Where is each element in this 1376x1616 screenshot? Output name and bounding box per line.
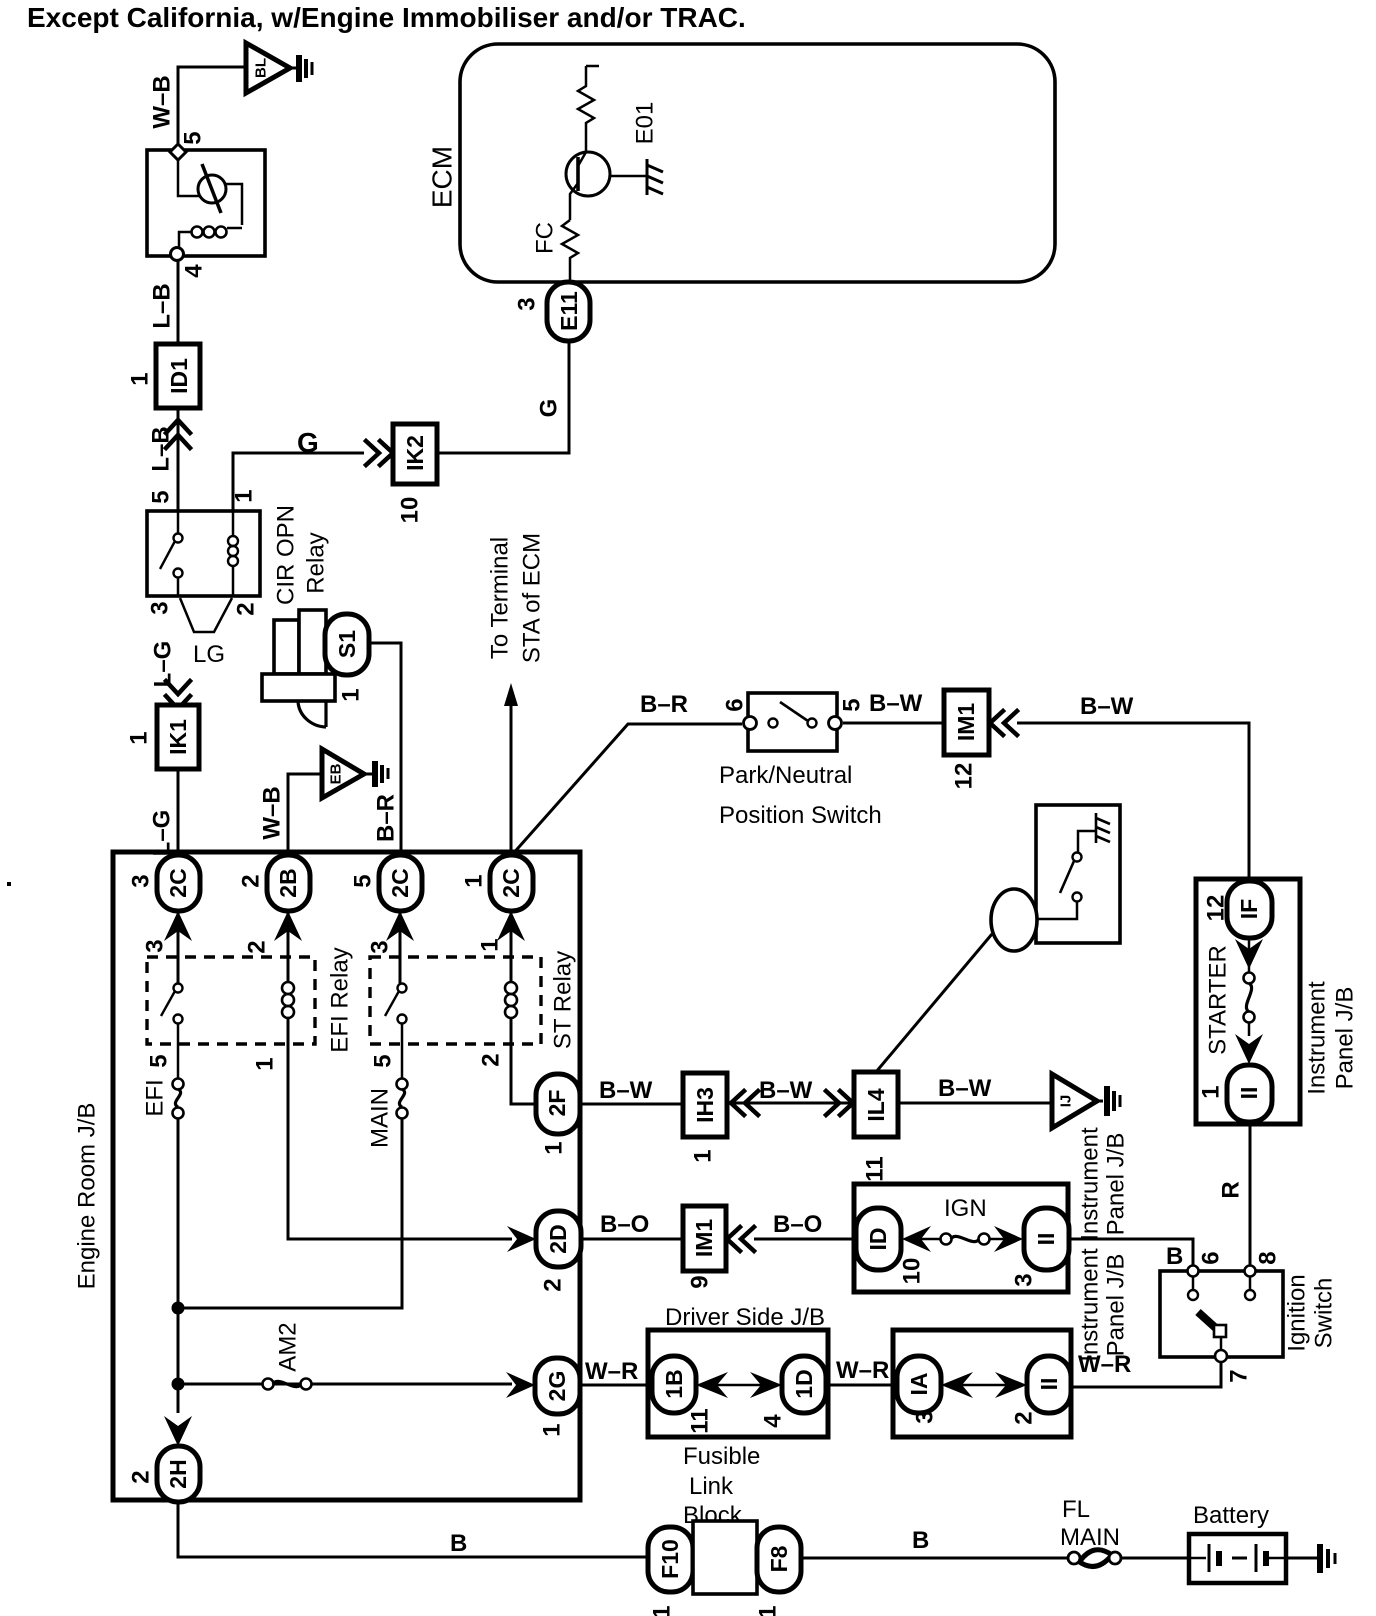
wire EFI fuse down: [177, 1118, 180, 1413]
svg-text:5: 5: [839, 698, 866, 711]
fuse EFI: [173, 1079, 184, 1090]
svg-text:W–B: W–B: [259, 786, 286, 839]
svg-text:Fusible: Fusible: [683, 1443, 760, 1470]
svg-text:2: 2: [1011, 1411, 1038, 1424]
wire 2C5 to ST switch: [399, 911, 402, 984]
svg-text:LG: LG: [193, 641, 225, 668]
svg-text:L–G: L–G: [149, 810, 176, 857]
pictorial switch contacts: [1073, 853, 1082, 862]
wire MAIN fuse down to junction: [178, 1118, 402, 1308]
svg-text:L–G: L–G: [150, 641, 177, 688]
svg-text:L–B: L–B: [149, 283, 176, 328]
svg-text:3: 3: [128, 874, 155, 887]
junction arrow right toward 1D: [750, 1372, 782, 1398]
svg-text:1: 1: [252, 1057, 279, 1070]
svg-text:L–B: L–B: [148, 426, 175, 471]
CIR OPN coil wires: [232, 511, 235, 596]
wire AM2: [178, 1383, 512, 1386]
wire-join chevrons left into IM1: [990, 711, 1017, 735]
relay internal wire: [178, 160, 199, 196]
EFI Relay dashed box: [147, 957, 315, 1044]
svg-text:ECM: ECM: [427, 146, 458, 208]
svg-text:IH3: IH3: [692, 1087, 718, 1123]
svg-text:2C: 2C: [498, 868, 524, 897]
svg-text:2C: 2C: [165, 868, 191, 897]
ground (battery) bars: [1317, 1544, 1323, 1573]
ST Relay dashed box: [370, 957, 541, 1044]
svg-text:W–R: W–R: [836, 1357, 889, 1384]
ground EB bars: [364, 773, 372, 776]
connector 1D: [782, 1356, 826, 1413]
connector 2H: [157, 1446, 200, 1502]
svg-text:Instrument: Instrument: [1077, 1127, 1104, 1241]
CIR OPN switch wires: [177, 511, 180, 596]
wire EFI coil to 2D: [288, 1018, 512, 1239]
fuse MAIN: [397, 1079, 408, 1090]
svg-text:2: 2: [233, 602, 260, 615]
wire G from coil pin 1: [233, 453, 364, 511]
connector IF: [1227, 881, 1272, 938]
ignition switch pictorial box: [1036, 805, 1120, 943]
svg-text:3: 3: [912, 1410, 939, 1423]
ground E01 (777): [647, 159, 663, 195]
ignition switch terminal 6: [1188, 1266, 1199, 1277]
wire W-B to ground BL: [178, 67, 246, 150]
svg-text:CIR OPN: CIR OPN: [273, 505, 300, 605]
junction arrow right toward II: [995, 1372, 1027, 1398]
svg-text:5: 5: [370, 1054, 397, 1067]
junction arrow left toward IA: [941, 1372, 973, 1398]
svg-text:3: 3: [1011, 1273, 1038, 1286]
junction arrow up into 2B(2): [274, 911, 302, 941]
svg-text:B–W: B–W: [938, 1075, 992, 1102]
svg-text:G: G: [297, 427, 319, 458]
wire ST coil to 2F: [511, 1018, 537, 1104]
connector IM1 pin 9: [683, 1206, 726, 1271]
relay (pictorial, top-left) box: [147, 150, 265, 256]
svg-text:2: 2: [540, 1278, 567, 1291]
wire B-W long from instrument panel: [1017, 723, 1249, 881]
wire-join chevrons right: [366, 441, 393, 465]
resistor (pull-up in ECM): [578, 66, 599, 152]
svg-text:1B: 1B: [661, 1369, 687, 1398]
EFI relay coil: [282, 982, 294, 994]
battery cells: [1189, 1557, 1206, 1560]
ECM box: [460, 44, 1055, 282]
svg-text:B–W: B–W: [599, 1077, 653, 1104]
PNP switch terminal diamonds: [744, 717, 757, 730]
svg-text:B–R: B–R: [373, 794, 400, 842]
svg-text:3: 3: [147, 601, 174, 614]
svg-text:Instrument: Instrument: [1077, 1248, 1104, 1362]
junction arrow down into 2H: [164, 1416, 192, 1446]
svg-text:1: 1: [461, 874, 488, 887]
fusible link block square: [693, 1521, 757, 1594]
svg-text:12: 12: [1203, 895, 1230, 922]
connector IA: [897, 1356, 941, 1413]
wire battery to ground: [1286, 1557, 1317, 1560]
connector 2G: [535, 1358, 580, 1414]
connector 1B: [652, 1356, 696, 1413]
svg-text:STA of ECM: STA of ECM: [519, 533, 546, 663]
connector IL4: [854, 1072, 898, 1137]
svg-text:Switch: Switch: [1311, 1278, 1338, 1349]
svg-text:9: 9: [687, 1275, 714, 1288]
connector 2D: [536, 1211, 581, 1267]
junction dot MAIN line: [172, 1302, 185, 1315]
svg-text:B–O: B–O: [600, 1211, 649, 1238]
svg-text:5: 5: [350, 874, 377, 887]
svg-text:Panel J/B: Panel J/B: [1103, 1254, 1130, 1357]
svg-text:2C: 2C: [387, 868, 413, 897]
svg-text:MAIN: MAIN: [1060, 1524, 1120, 1551]
svg-text:2D: 2D: [545, 1224, 571, 1253]
connector II instrument: [1027, 1356, 1071, 1413]
fuse STARTER: [1248, 938, 1251, 973]
svg-text:IJ: IJ: [1058, 1095, 1075, 1108]
fuse AM2: [263, 1379, 274, 1390]
ignition switch key lever: [1198, 1312, 1219, 1331]
svg-text:Ignition: Ignition: [1284, 1274, 1311, 1351]
svg-text:IF: IF: [1236, 899, 1262, 919]
wire-join chevrons right: [826, 1091, 853, 1115]
svg-text:MAIN: MAIN: [367, 1088, 394, 1148]
connector E11: [547, 282, 590, 341]
park/neutral position switch box: [748, 693, 837, 751]
fusible link FL MAIN: [1068, 1552, 1080, 1564]
CIR OPN switch upper contact: [174, 534, 183, 543]
wire B-O to IGN: [754, 1238, 857, 1241]
instrument panel connector box: [893, 1330, 1071, 1437]
svg-text:IA: IA: [906, 1373, 932, 1396]
svg-text:1: 1: [1198, 1085, 1225, 1098]
svg-text:2H: 2H: [165, 1459, 191, 1488]
wire W-R between J/Bs: [828, 1384, 893, 1387]
connector IM1 pin 12: [944, 690, 989, 755]
svg-text:4: 4: [181, 264, 208, 278]
wire B-R diagonal to Park/Neutral: [511, 724, 742, 856]
svg-text:Link: Link: [689, 1473, 734, 1500]
PNP switch lever: [780, 702, 808, 721]
connector F8: [757, 1527, 801, 1592]
junction arrow up into 2C(3): [164, 911, 192, 941]
svg-text:IK1: IK1: [165, 719, 191, 755]
svg-text:FC: FC: [532, 222, 559, 254]
svg-text:S1: S1: [334, 630, 360, 658]
svg-text:2: 2: [478, 1053, 505, 1066]
svg-text:1: 1: [541, 1141, 568, 1154]
Driver Side J/B box: [648, 1330, 828, 1437]
junction arrow down from IF: [1235, 939, 1263, 969]
wire between IA II arrows: [960, 1384, 1008, 1387]
svg-text:2G: 2G: [544, 1371, 570, 1402]
svg-text:BL: BL: [253, 58, 270, 78]
svg-text:B: B: [450, 1530, 467, 1557]
wire-join chevrons down: [166, 681, 190, 709]
junction arrow right into 2G: [506, 1372, 535, 1398]
CIR OPN switch lever: [160, 541, 175, 569]
junction arrow right into 2D: [507, 1226, 536, 1252]
relay armature circle: [198, 175, 226, 203]
svg-text:B: B: [1166, 1243, 1183, 1270]
svg-text:Position Switch: Position Switch: [719, 802, 882, 829]
ignition key cylinder oval: [991, 889, 1037, 951]
wire W-B to ground EB: [288, 774, 322, 856]
svg-text:1: 1: [755, 1605, 782, 1616]
svg-text:Engine Room J/B: Engine Room J/B: [74, 1103, 101, 1290]
wire 2B2 to EFI coil: [287, 911, 290, 982]
wire from II to ignition switch B/6: [1069, 1239, 1193, 1267]
svg-text:B–W: B–W: [869, 690, 923, 717]
svg-text:Driver Side J/B: Driver Side J/B: [665, 1304, 825, 1331]
svg-text:EFI Relay: EFI Relay: [327, 947, 354, 1052]
connector II of IGN: [1024, 1208, 1069, 1270]
svg-text:1: 1: [338, 688, 365, 701]
junction arrow down into II: [1235, 1034, 1263, 1064]
transistor wire to ground E01: [610, 175, 647, 178]
svg-text:B: B: [912, 1527, 929, 1554]
svg-text:ST Relay: ST Relay: [550, 951, 577, 1049]
svg-text:F10: F10: [657, 1539, 683, 1579]
svg-text:W–B: W–B: [149, 75, 176, 128]
svg-text:4: 4: [760, 1414, 787, 1428]
svg-text:Relay: Relay: [303, 532, 330, 593]
svg-text:IK2: IK2: [402, 435, 428, 471]
wire B-W PNP to IM1: [843, 722, 944, 725]
connector 2C pin 5: [379, 855, 422, 911]
svg-text:IM1: IM1: [691, 1219, 717, 1258]
svg-text:B–O: B–O: [773, 1211, 822, 1238]
relay S1 bracket arc: [298, 701, 326, 727]
svg-text:Instrument: Instrument: [1304, 981, 1331, 1095]
ground BL triangle: [246, 43, 290, 93]
svg-text:FL: FL: [1062, 1496, 1090, 1523]
svg-text:1: 1: [126, 731, 153, 744]
wire between chevrons: [727, 1102, 854, 1105]
svg-text:E01: E01: [632, 102, 659, 145]
svg-text:12: 12: [951, 763, 978, 790]
svg-text:Park/Neutral: Park/Neutral: [719, 762, 852, 789]
wire-join chevrons left into IM1: [727, 1227, 754, 1251]
svg-text:1: 1: [690, 1149, 717, 1162]
connector 2C pin 3: [157, 855, 200, 911]
svg-text:10: 10: [397, 497, 424, 524]
svg-text:6: 6: [1198, 1251, 1225, 1264]
relay internal wire to coil: [226, 184, 242, 225]
wire B-O from 2D: [581, 1238, 683, 1241]
relay coil loops: [192, 227, 203, 238]
svg-text:F8: F8: [766, 1545, 792, 1572]
svg-text:B–W: B–W: [1080, 693, 1134, 720]
svg-text:To Terminal: To Terminal: [487, 537, 514, 659]
wire-join chevrons left: [731, 1091, 758, 1115]
ground BL bars: [290, 67, 296, 70]
CIR OPN switch lower contact: [174, 569, 183, 578]
svg-text:EB: EB: [328, 763, 345, 784]
connector IK2: [393, 424, 437, 484]
wire between fusible link arrows: [715, 1384, 763, 1387]
svg-text:7: 7: [1226, 1369, 1253, 1382]
svg-text:IM1: IM1: [953, 703, 979, 742]
svg-text:6: 6: [722, 698, 749, 711]
svg-text:1: 1: [231, 489, 258, 502]
svg-text:STARTER: STARTER: [1205, 945, 1232, 1055]
svg-text:1: 1: [477, 938, 504, 951]
svg-text:AM2: AM2: [275, 1322, 302, 1371]
ignition switch contact box: [1160, 1271, 1283, 1357]
svg-text:EFI: EFI: [142, 1079, 169, 1116]
relay S1 pictorial body rect 1: [274, 620, 299, 674]
connector IH3: [683, 1073, 727, 1137]
wire B-W from 2F: [580, 1103, 683, 1106]
svg-text:5: 5: [148, 490, 175, 503]
pictorial switch lever: [1060, 861, 1074, 893]
svg-text:R: R: [1218, 1181, 1245, 1198]
connector ID: [856, 1208, 901, 1270]
svg-text:W–R: W–R: [585, 1358, 638, 1385]
wire L-G to 2C: [177, 769, 180, 856]
wire below ID1: [177, 408, 180, 511]
svg-text:2B: 2B: [275, 868, 301, 897]
svg-text:II: II: [1033, 1233, 1059, 1246]
connector 2C pin 1: [490, 855, 533, 911]
svg-text:1: 1: [649, 1605, 676, 1616]
junction arrow up into 2C(1): [497, 911, 525, 941]
wire-join chevrons up: [166, 420, 190, 448]
svg-text:2F: 2F: [544, 1090, 570, 1117]
svg-text:11: 11: [862, 1156, 889, 1181]
svg-text:Panel J/B: Panel J/B: [1332, 987, 1359, 1090]
junction arrow up into 2C(5): [386, 911, 414, 941]
svg-text:Except California, w/Engine Im: Except California, w/Engine Immobiliser …: [27, 2, 746, 33]
svg-text:Battery: Battery: [1193, 1502, 1269, 1529]
svg-text:2: 2: [244, 940, 271, 953]
Instrument Panel J/B (STARTER) box: [1196, 879, 1300, 1124]
wire W-R from 2G: [580, 1384, 650, 1387]
svg-text:3: 3: [514, 297, 541, 310]
ground EB triangle: [322, 749, 364, 798]
wire to battery: [1121, 1557, 1189, 1560]
wire B-R from S1 to 2C(5): [369, 643, 401, 856]
svg-text:3: 3: [142, 939, 169, 952]
svg-text:5: 5: [146, 1054, 173, 1067]
ground IJ bars: [1097, 1100, 1103, 1103]
connector ID1: [156, 344, 200, 408]
svg-text:Panel J/B: Panel J/B: [1103, 1133, 1130, 1236]
ground IJ triangle: [1052, 1074, 1097, 1128]
transistor (FC driver): [566, 152, 610, 196]
resistor FC: [562, 220, 578, 282]
relay pin 4 terminal circle: [171, 248, 184, 261]
svg-text:3: 3: [367, 940, 394, 953]
ignition switch terminal 8: [1245, 1266, 1256, 1277]
svg-text:E11: E11: [556, 291, 582, 331]
svg-text:1D: 1D: [791, 1369, 817, 1398]
wire 2C1 to ST coil: [510, 911, 513, 982]
battery box: [1189, 1534, 1286, 1583]
junction arrow right toward II: [994, 1226, 1023, 1252]
pictorial switch wire to key: [1036, 902, 1077, 919]
svg-text:10: 10: [899, 1258, 926, 1285]
relay S1 pictorial body rect 2: [299, 610, 326, 674]
svg-text:B–W: B–W: [759, 1077, 813, 1104]
wire L-B: [177, 260, 180, 344]
junction dot AM2 line: [172, 1378, 185, 1391]
LG jumper of pins 3-2: [180, 598, 232, 632]
wire arrow To Terminal STA of ECM: [510, 700, 513, 856]
junction arrow left toward ID: [902, 1226, 931, 1252]
svg-text:II: II: [1236, 1087, 1262, 1100]
svg-text:1: 1: [539, 1423, 566, 1436]
svg-text:1: 1: [127, 372, 154, 385]
relay armature slash: [202, 164, 221, 213]
ignition switch terminal 7: [1215, 1350, 1227, 1362]
svg-text:II: II: [1036, 1378, 1062, 1391]
pictorial switch wires: [1078, 831, 1096, 852]
PNP switch contacts: [769, 719, 778, 728]
svg-text:8: 8: [1255, 1251, 1282, 1264]
ST relay switch: [398, 984, 407, 993]
svg-text:ID: ID: [865, 1228, 891, 1251]
svg-text:IGN: IGN: [944, 1195, 987, 1222]
svg-text:ID1: ID1: [166, 358, 192, 394]
svg-text:G: G: [536, 399, 563, 418]
connector 2B pin 2: [267, 855, 310, 911]
svg-text:B–R: B–R: [640, 691, 688, 718]
connector II of starter: [1227, 1065, 1272, 1122]
relay pin 5 diamond terminal: [170, 144, 186, 160]
svg-text:2: 2: [128, 1470, 155, 1483]
svg-text:11: 11: [687, 1408, 714, 1433]
connector S1 oval: [325, 614, 369, 675]
EFI relay switch: [174, 984, 183, 993]
wire R from II to ignition switch 8: [1249, 1122, 1252, 1266]
wire W-R from pin 7: [1071, 1362, 1221, 1387]
relay CIR OPN box: [147, 511, 260, 596]
junction arrow left toward 1B: [696, 1372, 728, 1398]
wire 2C3 to EFI switch: [177, 911, 180, 984]
svg-text:IL4: IL4: [863, 1088, 889, 1121]
svg-text:5: 5: [180, 131, 207, 144]
wire diagonal from IL4 to key: [876, 934, 992, 1072]
ground 777 in pictorial: [1096, 813, 1110, 843]
wire G to E11: [437, 341, 569, 453]
wire B from F8 to FL MAIN: [801, 1557, 1068, 1560]
svg-text:W–R: W–R: [1078, 1351, 1131, 1378]
connector 2F: [536, 1074, 580, 1134]
svg-text:2: 2: [238, 874, 265, 887]
wire B-W to ground IJ: [898, 1102, 1052, 1105]
Instrument Panel J/B fuse box (IGN): [854, 1184, 1068, 1292]
relay S1 base rect: [262, 674, 335, 701]
CIR OPN coil loops: [228, 536, 238, 546]
fuse IGN: [921, 1238, 941, 1241]
ST relay coil: [505, 982, 517, 994]
connector F10: [648, 1527, 693, 1592]
Engine Room J/B box: [113, 852, 580, 1500]
wire B from 2H: [178, 1500, 648, 1557]
connector IK1: [157, 705, 199, 769]
